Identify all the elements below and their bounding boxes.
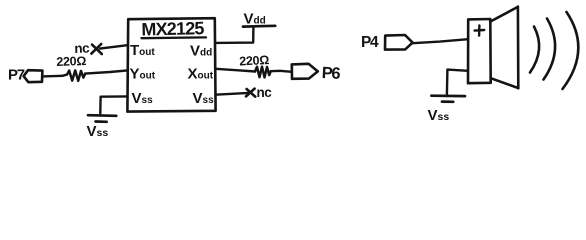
svg-text:Tout: Tout: [130, 42, 155, 59]
svg-text:220Ω: 220Ω: [56, 54, 86, 69]
svg-text:Vss: Vss: [132, 90, 154, 107]
wire P7 to resistor R1: [42, 75, 62, 78]
ground symbol Vss (left): [88, 115, 116, 122]
wire speaker to ground (right): [447, 70, 468, 95]
no-connect X mark on Tout: [91, 44, 101, 54]
power rail Vdd bar: [243, 24, 275, 28]
connector P6 tag: [292, 64, 318, 79]
speaker SP1 body: [468, 19, 491, 83]
svg-text:Vdd: Vdd: [244, 11, 266, 28]
speaker plus terminal mark: [475, 25, 485, 35]
connector P7 tag: [24, 70, 43, 82]
svg-text:Vss: Vss: [87, 123, 109, 140]
resistor R1 220ohm zigzag: [63, 70, 86, 80]
svg-text:P4: P4: [361, 34, 379, 51]
sound wave arc 3: [563, 12, 579, 89]
svg-text:Yout: Yout: [130, 66, 156, 83]
sound wave arc 1: [530, 27, 539, 73]
svg-text:Vss: Vss: [428, 107, 450, 124]
IC label MX2125: [141, 18, 206, 39]
no-connect X mark (right Vss): [246, 89, 255, 97]
connector P4 tag: [385, 35, 413, 50]
wire Vdd pin to supply rail: [216, 26, 254, 43]
IC U1 MX2125 body: [127, 18, 215, 111]
svg-text:Xout: Xout: [188, 66, 214, 83]
ground symbol Vss (right): [431, 96, 465, 102]
wire R2 to P6: [271, 71, 292, 72]
speaker horn cone: [491, 7, 519, 89]
svg-text:Vdd: Vdd: [190, 43, 212, 60]
wire Vss(right) no-connect stub: [216, 93, 249, 95]
wire P4 to speaker: [413, 39, 468, 43]
svg-text:nc: nc: [257, 85, 273, 100]
wire Tout no-connect stub: [100, 45, 127, 48]
svg-text:Vss: Vss: [193, 90, 215, 107]
svg-text:MX2125: MX2125: [141, 18, 204, 39]
wire Vss(left) to ground: [100, 96, 127, 113]
svg-text:P7: P7: [8, 67, 25, 84]
sound wave arc 2: [544, 19, 556, 80]
resistor R2 220ohm zigzag: [255, 67, 271, 78]
svg-text:P6: P6: [321, 64, 341, 83]
wire R1 to Yout: [85, 70, 127, 73]
svg-text:220Ω: 220Ω: [239, 53, 270, 69]
wire Xout to resistor R2: [216, 69, 255, 72]
